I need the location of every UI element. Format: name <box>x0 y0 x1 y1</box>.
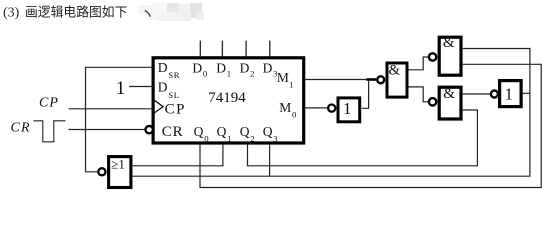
svg-text:1: 1 <box>289 79 293 89</box>
svg-text:画逻辑电路图如下: 画逻辑电路图如下 <box>25 5 128 20</box>
NAND G4 (&) top box <box>439 37 461 75</box>
svg-text:(3): (3) <box>3 6 20 21</box>
CR inversion bubble <box>146 126 153 133</box>
NAND G5 (&) bottom output bubble <box>429 98 436 105</box>
svg-text:2: 2 <box>250 68 254 78</box>
svg-text:SL: SL <box>168 90 179 100</box>
wire: Q0 net to top NAND input B (h5 + V2) <box>200 64 541 187</box>
svg-text:Q: Q <box>240 124 250 139</box>
svg-text:1: 1 <box>227 68 231 78</box>
svg-text:74194: 74194 <box>208 90 246 106</box>
svg-text:D: D <box>240 60 250 75</box>
wire: G5 input A from G6 bubble <box>463 93 490 95</box>
wire: DSL input <box>129 86 153 88</box>
svg-text:Q: Q <box>194 124 204 139</box>
IC pin label M1 <box>277 70 294 89</box>
svg-text:1: 1 <box>343 99 352 118</box>
wire: OR input 2 long net h2 + V1 to top NAND input A <box>133 49 530 177</box>
wire: Q2 net to bottom NAND input B (h4 + V3) <box>248 110 478 166</box>
IC pin label M0 <box>279 100 297 120</box>
wire: feedback from OR gate G1 output to DSR pin <box>86 67 154 172</box>
wire: Q3 stub down to h2 <box>269 145 271 177</box>
NAND G3 (&) box <box>387 63 407 97</box>
svg-text:&: & <box>443 35 455 51</box>
svg-text:CR: CR <box>162 124 184 140</box>
svg-text:D: D <box>158 80 168 95</box>
inverter G6 (1) output bubble <box>491 91 498 98</box>
CP clock triangle <box>154 100 163 113</box>
NAND G4 (&) top output bubble <box>429 53 436 60</box>
wire: M1 tap down to inverter G2 input <box>362 80 369 109</box>
svg-text:2: 2 <box>250 134 254 144</box>
svg-text:M: M <box>277 70 289 85</box>
svg-text:M: M <box>279 100 291 115</box>
D3 top pin stub <box>269 41 271 57</box>
D1 top pin stub <box>221 41 223 57</box>
svg-text:D: D <box>263 60 273 75</box>
D2 top pin stub <box>245 41 247 57</box>
NAND G5 (&) bottom box <box>439 87 461 119</box>
wire: Q1 to OR input 1 (h1) <box>133 145 223 166</box>
svg-text:≥1: ≥1 <box>111 156 125 171</box>
svg-text:3: 3 <box>273 134 277 144</box>
svg-text:D: D <box>158 60 168 75</box>
svg-text:1: 1 <box>227 134 231 144</box>
svg-text:Q: Q <box>263 124 273 139</box>
wire: right inverter G6 input from V1 <box>523 92 530 94</box>
dunhao punctuation mark <box>145 11 150 16</box>
wire: M1 from IC to NAND G3 output bubble <box>305 79 366 81</box>
wire: CP input <box>69 108 154 110</box>
svg-text:CP: CP <box>165 102 186 118</box>
CR negative pulse waveform <box>34 121 66 142</box>
svg-text:Q: Q <box>217 124 227 139</box>
svg-text:0: 0 <box>203 68 208 78</box>
NAND G3 (&) output bubble <box>377 76 384 83</box>
svg-text:&: & <box>443 86 455 102</box>
svg-text:D: D <box>216 60 226 75</box>
inverter G2 (1) box <box>338 98 360 122</box>
inverter G2 (1) output bubble <box>328 105 335 112</box>
svg-text:1: 1 <box>116 78 126 99</box>
D0 top pin stub <box>199 41 201 57</box>
inverter G6 (1) box <box>500 81 521 107</box>
IC pin labels Q0 Q1 Q2 Q3 <box>194 124 278 143</box>
svg-text:&: & <box>389 62 401 78</box>
svg-text:CP: CP <box>39 96 59 111</box>
IC pin label DSL <box>158 80 180 100</box>
74194 IC U1 <box>153 58 304 143</box>
IC pin labels D0 D1 D2 D3 <box>192 60 277 78</box>
OR gate G1 (>=1) box <box>109 157 131 188</box>
mosaic censor blocks <box>139 2 204 21</box>
wire: G3 input B jog down to G5 bubble <box>409 87 429 102</box>
svg-text:SR: SR <box>168 70 180 80</box>
IC pin label DSR <box>158 60 180 80</box>
wire: G3 input A jog up to G4 bubble <box>409 57 429 70</box>
svg-text:1: 1 <box>505 84 514 103</box>
wire: CR input <box>69 129 145 131</box>
OR gate G1 output bubble <box>98 168 105 175</box>
svg-text:0: 0 <box>204 134 209 144</box>
svg-text:CR: CR <box>11 120 31 135</box>
svg-text:0: 0 <box>292 110 297 120</box>
svg-text:D: D <box>192 60 202 75</box>
wire: M0 from inverter G2 output to IC <box>305 107 328 109</box>
